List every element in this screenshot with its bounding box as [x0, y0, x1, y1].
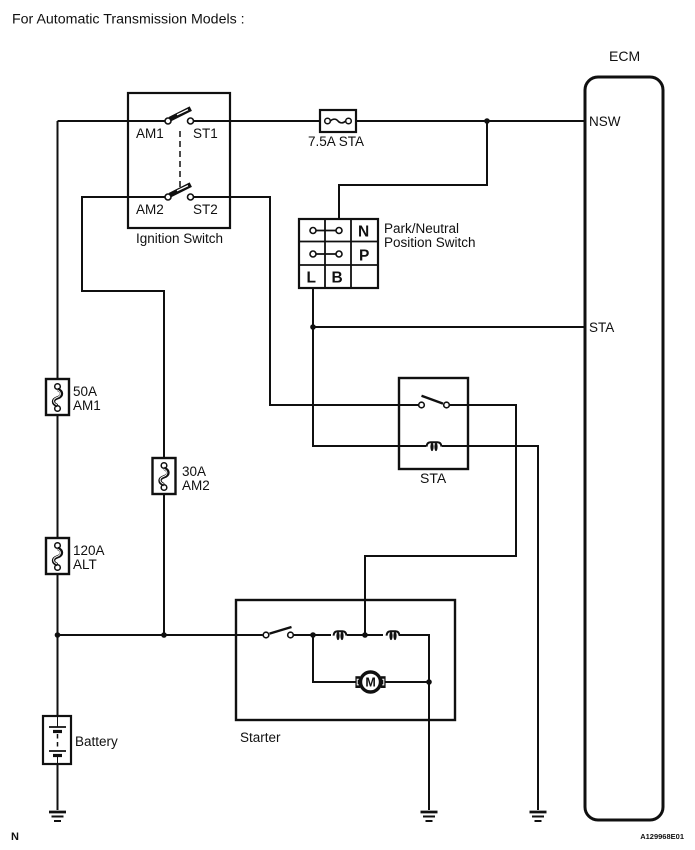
- wire: between starter coils: [347, 634, 383, 636]
- wire: left rail 120A fuse to battery: [57, 575, 59, 716]
- svg-text:30A: 30A: [182, 464, 206, 479]
- fuse 50A AM1: [46, 379, 69, 415]
- svg-text:ST2: ST2: [193, 202, 218, 217]
- junction node battery rail: [55, 632, 61, 638]
- svg-text:Starter: Starter: [240, 730, 281, 745]
- ground at battery: [49, 812, 66, 821]
- svg-text:STA: STA: [589, 320, 614, 335]
- junction node starter coil mid: [362, 632, 368, 638]
- ground at STA relay coil: [530, 812, 547, 821]
- wire: motor to right node: [385, 681, 429, 683]
- junction node AM2 rail: [161, 632, 167, 638]
- svg-text:ALT: ALT: [73, 557, 97, 572]
- svg-text:Park/Neutral: Park/Neutral: [384, 221, 459, 236]
- wire: motor branch from junction: [313, 635, 356, 682]
- starter motor M: [355, 672, 385, 692]
- STA relay coil: [427, 442, 442, 451]
- ECM box: [585, 77, 663, 820]
- starter pull-in coil: [334, 631, 347, 640]
- svg-text:Battery: Battery: [75, 734, 118, 749]
- wire: starter to ground: [428, 682, 430, 810]
- svg-text:50A: 50A: [73, 384, 97, 399]
- wire: second coil to right side down to motor node: [399, 635, 429, 682]
- contact row P: [316, 253, 336, 255]
- fuse 120A ALT: [46, 538, 69, 574]
- ignition switch AM2 contact: [165, 194, 171, 200]
- fuse 7.5A STA: [320, 110, 356, 132]
- wire: bottom horizontal rail to starter: [58, 634, 263, 636]
- svg-text:AM2: AM2: [182, 478, 210, 493]
- svg-text:Position Switch: Position Switch: [384, 235, 476, 250]
- ignition switch AM1-ST1 blade: [170, 109, 191, 120]
- contact row N: [316, 230, 336, 232]
- junction node starter motor right: [426, 679, 432, 685]
- wire: fuse to ECM NSW pin: [356, 120, 585, 122]
- STA relay contact circles: [419, 402, 425, 408]
- starter box: [236, 600, 455, 720]
- junction node STA net: [310, 324, 316, 330]
- ignition switch AM2-ST2 blade: [170, 185, 191, 196]
- battery: [43, 716, 71, 764]
- junction node starter coil left: [310, 632, 316, 638]
- STA relay blade: [422, 396, 444, 404]
- wire: STA node to ECM STA pin: [313, 326, 585, 328]
- wire: left vertical rail upper: [57, 121, 59, 379]
- svg-text:P: P: [359, 248, 369, 265]
- svg-text:N: N: [358, 224, 369, 241]
- wire: battery to ground: [57, 764, 59, 810]
- wire: park/neutral switch bottom lead: [312, 288, 314, 327]
- svg-text:AM1: AM1: [73, 398, 101, 413]
- svg-text:120A: 120A: [73, 543, 105, 558]
- ignition switch gang dashed link: [179, 131, 181, 189]
- svg-text:7.5A STA: 7.5A STA: [308, 134, 364, 149]
- ignition switch ST2 contact: [188, 194, 194, 200]
- wire: 30A fuse down to bottom rail: [163, 495, 165, 635]
- svg-text:ST1: ST1: [193, 126, 218, 141]
- park/neutral position switch: [299, 219, 378, 288]
- wire: NSW branch down to park/neutral switch: [339, 121, 487, 219]
- svg-text:L: L: [307, 270, 316, 287]
- ignition switch box: [128, 93, 230, 228]
- junction node on NSW wire: [484, 118, 490, 124]
- wire: AM2 to 30A AM2 fuse: [82, 197, 165, 458]
- svg-text:A129968E01: A129968E01: [640, 832, 684, 841]
- STA relay box: [399, 378, 468, 469]
- wire: ST2 down to STA relay contact: [194, 197, 419, 405]
- svg-text:Ignition Switch: Ignition Switch: [136, 231, 223, 246]
- svg-text:NSW: NSW: [589, 114, 621, 129]
- fuse 30A AM2: [153, 458, 176, 494]
- wire: starter switch to first coil junction: [294, 634, 332, 636]
- wire: left rail between 50A fuse and 120A fuse: [57, 415, 59, 538]
- svg-text:STA: STA: [420, 470, 447, 486]
- starter switch blade: [270, 627, 292, 634]
- wire: STA relay contact output to starter solenoid: [365, 405, 516, 635]
- svg-text:N: N: [11, 831, 19, 843]
- ignition switch AM1 contact: [165, 118, 171, 124]
- svg-text:For Automatic Transmission Mod: For Automatic Transmission Models :: [12, 12, 245, 28]
- svg-text:M: M: [365, 675, 375, 689]
- svg-text:AM1: AM1: [136, 126, 164, 141]
- wire: battery rail to ignition AM1: [58, 120, 165, 122]
- wire: relay coil to ground: [442, 446, 538, 810]
- ignition switch ST1 contact: [188, 118, 194, 124]
- starter hold-in coil: [387, 631, 400, 640]
- svg-text:B: B: [332, 270, 343, 287]
- ground at starter: [421, 812, 438, 821]
- starter switch contacts: [263, 632, 269, 638]
- wire: ST1 to fuse 7.5A STA: [194, 120, 321, 122]
- svg-text:AM2: AM2: [136, 202, 164, 217]
- svg-text:ECM: ECM: [609, 48, 640, 64]
- wire: STA node down to relay coil: [313, 327, 426, 446]
